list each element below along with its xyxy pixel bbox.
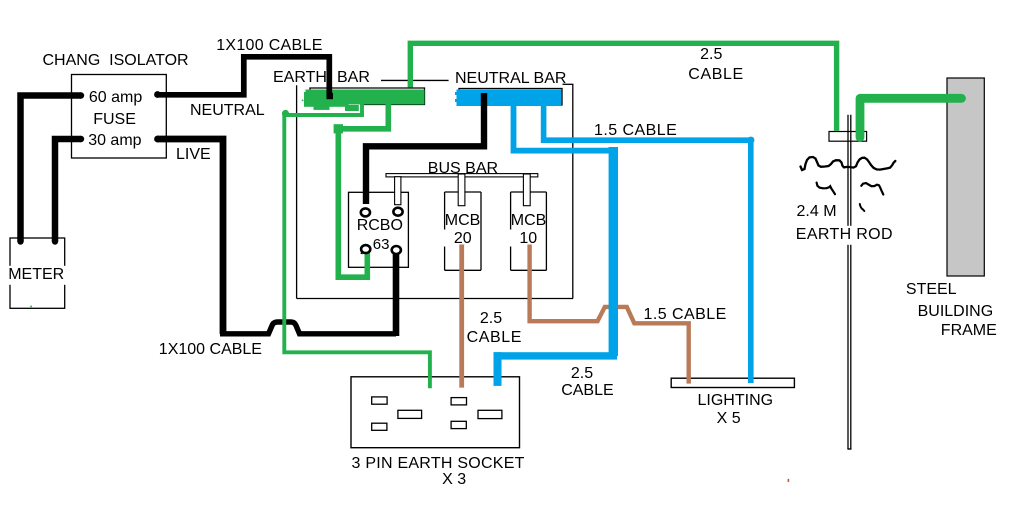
wire: green steel frame to clamp (860, 98, 962, 137)
rod clamp (829, 132, 867, 142)
RCBO terminal top-left (361, 208, 370, 216)
wire: green earth bar to socket (284, 105, 430, 389)
socket slot L bottom (372, 423, 387, 430)
wire: meter to 30 amp (black) (55, 139, 81, 242)
steel building frame (947, 78, 984, 276)
bus bar stub to RCBO (395, 177, 401, 205)
text labels (43, 53, 189, 69)
consumer unit enclosure (297, 84, 574, 298)
wire: brown 2.5 cable MCB20 to socket (459, 245, 464, 388)
ground tick near rod (860, 204, 865, 211)
meter box (10, 238, 65, 308)
RCBO terminal bottom-right (392, 246, 401, 254)
earth bar green paint (304, 90, 425, 112)
neutral bar blue paint (455, 90, 562, 107)
socket slot R top (451, 398, 466, 405)
wire: live bottom run with hop over green (black) (220, 322, 396, 334)
wire: blue 2.5 cable neutral bar to socket (514, 101, 613, 151)
wire: neutral 1X100 cable, 60 amp to earth bar area (black) (157, 57, 329, 99)
socket slot R mid (478, 410, 502, 418)
wire: green 2.5 cable earth bar to rod clamp (410, 43, 836, 131)
wire: neutral bar to RCBO (black) (366, 93, 484, 204)
ground squiggle small right (861, 183, 883, 195)
RCBO box (349, 192, 409, 267)
isolator box (72, 75, 167, 159)
RCBO terminal bottom-left (361, 245, 370, 253)
socket slot L top (372, 397, 387, 404)
label pointer line between EARTH BAR and NEUTRAL BAR (381, 79, 449, 81)
3 pin socket box (351, 377, 520, 448)
MCB 10 box (511, 192, 547, 270)
RCBO terminal top-right (393, 208, 402, 216)
wire: blue 1.5 cable neutral bar to lighting (544, 101, 751, 383)
earth bar outline (310, 88, 425, 105)
wire: meter to 60 amp (black) (21, 96, 82, 242)
lighting bar (671, 378, 794, 387)
wire: live riser to RCBO (black) (393, 252, 400, 337)
wire: green earth bar to RCBO (338, 105, 388, 278)
earth rod (847, 115, 849, 449)
bus bar (386, 174, 538, 177)
socket slot L mid (398, 410, 422, 418)
socket slot R bottom (451, 421, 466, 428)
neutral bar outline (459, 89, 562, 106)
ground squiggle small left (817, 183, 835, 195)
wire: live 1X100 cable, 30 amp down and right (black) (157, 139, 223, 334)
wire: brown 1.5 cable MCB10 to lighting with hop over blue (530, 245, 689, 384)
ground squiggle main (801, 157, 896, 170)
bus bar stub to MCB 10 (523, 174, 530, 206)
bus bar stub to MCB 20 (458, 174, 465, 206)
MCB 20 box (445, 192, 481, 270)
